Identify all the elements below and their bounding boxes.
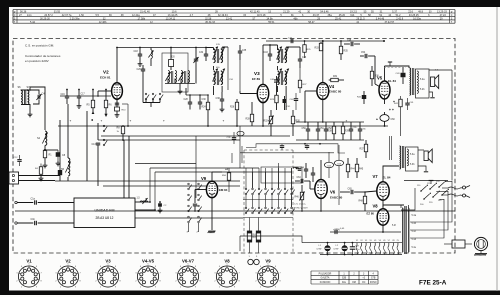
svg-text:C48: C48	[347, 40, 352, 42]
svg-text:46b: 46b	[293, 18, 298, 21]
diode det blob	[58, 170, 62, 181]
svg-text:C60: C60	[391, 119, 396, 121]
svg-text:5.4d: 5.4d	[412, 239, 417, 241]
wire V7 grid	[365, 191, 377, 192]
svg-text:EZ 80: EZ 80	[367, 212, 375, 216]
svg-text:R46: R46	[295, 197, 300, 199]
svg-text:+A: +A	[225, 168, 228, 171]
resistor R35	[339, 40, 348, 60]
lamp socket diagram	[248, 256, 259, 265]
selector verticals	[0, 0, 1, 1]
wire osc grid	[186, 88, 208, 96]
tube V5	[379, 81, 390, 99]
terminal FM a	[15, 201, 34, 203]
note text conmutador	[25, 54, 61, 63]
resistor R52	[256, 222, 260, 253]
svg-text:EABC 80: EABC 80	[329, 90, 342, 94]
svg-text:2B A3 U8 12: 2B A3 U8 12	[96, 216, 114, 220]
wire bank top mesh	[232, 146, 242, 163]
svg-text:C13: C13	[92, 144, 97, 146]
svg-text:12,46b: 12,46b	[99, 21, 107, 24]
wire B+ rail2	[266, 38, 385, 44]
wire V4 grid	[304, 91, 317, 123]
capacitor C59	[305, 144, 309, 150]
resistor R39	[341, 122, 349, 140]
wire spk1 gnd	[429, 92, 435, 98]
resistor R44	[346, 158, 355, 178]
svg-text:EM 84: EM 84	[219, 188, 228, 192]
scan edge right	[496, 7, 498, 291]
svg-text:EABC 80: EABC 80	[330, 195, 343, 199]
IF can 4	[277, 69, 289, 86]
svg-text:2,42,9: 2,42,9	[396, 18, 404, 21]
wire IF2 wiring	[214, 60, 241, 95]
parts table text	[14, 11, 453, 24]
motor M	[474, 237, 487, 253]
svg-text:V8: V8	[224, 259, 230, 264]
svg-text:13,41: 13,41	[226, 18, 233, 21]
power core	[405, 206, 406, 254]
socket diagram V6-V7	[175, 259, 201, 289]
switch S1a contacts	[103, 125, 107, 146]
oval label R28b	[237, 131, 244, 135]
trimmer C24	[193, 47, 198, 84]
svg-text:S7B: S7B	[371, 278, 376, 280]
bus y140	[98, 139, 240, 141]
pickup text	[294, 204, 308, 210]
svg-text:V4: V4	[329, 84, 335, 89]
capacitor C54	[360, 52, 375, 58]
svg-text:V3: V3	[365, 240, 367, 242]
output secondary box2	[406, 147, 419, 171]
heater bus top	[302, 242, 402, 244]
resistor R5	[87, 89, 95, 121]
resistor R4	[35, 164, 43, 181]
FM unit label	[95, 209, 115, 221]
output secondary box	[416, 69, 430, 98]
selector nest wires	[410, 181, 452, 238]
capacitor C41 blob	[283, 96, 292, 110]
svg-text:+: +	[392, 108, 394, 112]
svg-text:45,34,33: 45,34,33	[205, 21, 215, 24]
osc coil S7b	[165, 71, 170, 83]
voltage selector switches	[420, 181, 449, 200]
svg-text:R31: R31	[333, 76, 338, 78]
capacitor C18	[134, 47, 143, 67]
FM link coil	[137, 198, 148, 205]
terminal FM b	[15, 222, 34, 224]
svg-text:25,41: 25,41	[335, 18, 342, 21]
svg-text:C18: C18	[134, 51, 139, 53]
capacitor C38	[216, 92, 225, 112]
svg-text:FAL: FAL	[342, 281, 347, 284]
tube V4 label	[329, 84, 342, 94]
resistor R42 blob	[357, 91, 366, 104]
svg-text:5,5: 5,5	[95, 14, 99, 17]
trimmer C4	[36, 93, 45, 101]
wire terminal b	[19, 180, 56, 182]
svg-text:S2B: S2B	[342, 278, 347, 280]
IF can 2	[213, 69, 225, 86]
wire V9 top	[212, 172, 222, 181]
tube V8 label	[367, 204, 379, 216]
wire S4 tap	[44, 149, 58, 151]
tube V2 label	[100, 70, 111, 80]
svg-text:+: +	[130, 119, 132, 123]
svg-text:R28: R28	[246, 119, 251, 121]
svg-text:2,20,39a: 2,20,39a	[70, 18, 80, 21]
svg-text:C50: C50	[302, 128, 307, 130]
svg-text:OC: OC	[362, 282, 366, 284]
resistor R28	[246, 102, 254, 126]
capacitor C55	[349, 122, 357, 140]
wire v60	[59, 120, 61, 170]
label S15	[216, 44, 221, 46]
wire V6 cath	[320, 199, 322, 212]
svg-text:5,44: 5,44	[30, 21, 35, 24]
tube V3	[257, 84, 268, 102]
svg-text:5.2b: 5.2b	[420, 89, 425, 91]
pushbutton unit dashed boundary	[244, 150, 293, 253]
svg-text:V1: V1	[356, 240, 358, 242]
coupling C65	[340, 189, 365, 195]
pot R46	[295, 185, 305, 212]
svg-text:V4: V4	[374, 240, 376, 242]
tube V5 label	[377, 76, 396, 84]
svg-text:EF 89: EF 89	[252, 77, 260, 81]
svg-text:5.3a: 5.3a	[410, 154, 415, 156]
wire osc bottoms	[165, 79, 195, 94]
capacitor C1b	[31, 218, 75, 225]
wire V8 plate	[383, 205, 404, 209]
output core 2	[402, 146, 404, 168]
tube V8	[377, 209, 389, 225]
plus marks avc	[70, 119, 348, 123]
wire V6 plate	[320, 160, 322, 179]
wire V9 cath	[208, 198, 216, 233]
capacitor C66	[335, 228, 345, 234]
shield line det	[240, 143, 345, 153]
function table grid	[311, 271, 378, 284]
capacitor C26	[137, 65, 146, 76]
svg-text:R24: R24	[202, 107, 207, 109]
svg-text:14,1: 14,1	[27, 14, 32, 17]
chassis dashed boundary	[13, 39, 455, 254]
svg-text:V7: V7	[388, 240, 390, 242]
svg-text:V5: V5	[369, 240, 371, 242]
svg-text:21,29: 21,29	[283, 11, 290, 14]
svg-text:V6: V6	[383, 240, 385, 242]
svg-text:V7: V7	[373, 174, 379, 179]
tube V4	[317, 83, 329, 100]
svg-text:V2: V2	[103, 70, 109, 75]
wire spk1 top	[429, 70, 452, 181]
output transformer S3 primary	[400, 146, 401, 169]
IF can 3	[277, 47, 289, 64]
wire heater feed	[240, 236, 302, 251]
svg-text:V8: V8	[373, 204, 379, 209]
wire V7 cath	[382, 200, 384, 207]
svg-text:C64: C64	[297, 177, 302, 179]
svg-text:R48: R48	[359, 201, 364, 203]
svg-text:V2: V2	[360, 240, 362, 242]
svg-text:0,9W: 0,9W	[334, 249, 339, 251]
wire phono drop	[0, 0, 1, 1]
wire C60	[384, 112, 386, 127]
wire grid top	[60, 95, 111, 97]
tube V7	[377, 182, 389, 200]
socket diagram V2	[55, 259, 81, 289]
bus 250V	[330, 228, 401, 232]
osc shield box	[162, 53, 188, 92]
wire det buses2	[332, 122, 364, 140]
label 5W	[435, 70, 439, 72]
heater junctions	[327, 242, 354, 256]
svg-text:C17: C17	[81, 94, 86, 96]
resistor R38b	[328, 122, 336, 140]
wire terminal a	[19, 175, 61, 177]
wire v339	[338, 145, 340, 205]
capacitor C28	[184, 95, 193, 110]
bus y163	[135, 126, 240, 198]
electrolytic C60	[376, 115, 395, 122]
aerial coil S6	[18, 86, 23, 105]
oval label C62	[324, 162, 333, 167]
svg-text:+: +	[163, 119, 165, 123]
wire V3 grid	[240, 91, 257, 94]
svg-text:UNIDAD FM: UNIDAD FM	[95, 209, 115, 213]
svg-text:40,5,18: 40,5,18	[257, 14, 266, 17]
capacitor C51	[316, 122, 325, 140]
resistor R8	[117, 126, 125, 134]
svg-text:2ª: 2ª	[197, 231, 199, 234]
svg-text:R26: R26	[230, 107, 235, 109]
pushbutton row wires	[243, 200, 293, 223]
wire V2 plate	[116, 47, 118, 83]
svg-text:V4-V5: V4-V5	[142, 259, 155, 264]
svg-text:5.2a: 5.2a	[420, 79, 425, 81]
osc core 1	[172, 71, 173, 83]
resistor R29	[270, 87, 278, 110]
phono connector box	[452, 240, 465, 248]
wire osc sw	[143, 76, 160, 107]
parts table grid	[13, 10, 455, 24]
phono hatch ground	[474, 254, 487, 256]
lamp L2	[334, 245, 348, 251]
wire V7 plate	[383, 166, 399, 182]
tube V2	[112, 83, 123, 99]
speaker 2	[424, 149, 432, 163]
tube V6 label	[330, 190, 343, 200]
svg-text:+: +	[376, 118, 378, 122]
capacitor C35	[238, 45, 247, 60]
switch osc contacts	[145, 93, 163, 100]
wire trafo2	[0, 0, 1, 1]
wire det buses	[296, 122, 332, 140]
wire trafo top	[401, 205, 409, 208]
resistor R30	[291, 110, 300, 136]
tube V7 label	[373, 174, 391, 180]
bus B+ top	[117, 47, 214, 49]
wire R1 ground	[43, 158, 48, 168]
socket diagram V1	[16, 259, 42, 289]
mains plug	[448, 186, 470, 198]
wire v98	[97, 123, 99, 140]
capacitor C32	[199, 47, 208, 61]
svg-text:5.4f: 5.4f	[392, 225, 396, 227]
capacitor C16	[61, 89, 70, 104]
svg-text:R32: R32	[264, 121, 269, 123]
bus y172	[155, 171, 292, 173]
svg-text:+: +	[101, 119, 103, 123]
tone shield box	[261, 167, 302, 183]
svg-text:1,50: 1,50	[79, 14, 84, 17]
svg-text:FONO y 220V: FONO y 220V	[294, 208, 308, 210]
pushbutton verticals	[253, 163, 292, 207]
capacitor C17	[77, 89, 86, 109]
oval label C63	[334, 160, 343, 165]
mains earth mark	[404, 181, 448, 185]
wire v87	[86, 111, 88, 181]
plus marks cath	[389, 100, 395, 112]
svg-text:5.4b: 5.4b	[412, 223, 417, 225]
wire V4 cath	[322, 99, 324, 122]
function table text	[319, 272, 377, 284]
svg-text:C65: C65	[348, 189, 353, 191]
resistor R37	[360, 140, 368, 158]
svg-text:30,29,30: 30,29,30	[40, 18, 50, 21]
svg-text:C16: C16	[61, 94, 66, 96]
border frame left	[0, 0, 9, 295]
output transformer S2 primary	[410, 68, 411, 95]
bus y168	[150, 167, 259, 169]
svg-text:R35: R35	[344, 51, 349, 53]
capacitor C44	[290, 93, 299, 110]
svg-text:17,58b: 17,58b	[137, 18, 145, 21]
svg-text:EL 84: EL 84	[388, 79, 396, 83]
resistor R48	[359, 191, 367, 211]
capacitor C50	[302, 122, 311, 140]
svg-text:FUNCION: FUNCION	[320, 282, 331, 284]
wire V8 cath	[382, 225, 384, 233]
wire V4 plate	[322, 42, 324, 83]
svg-text:R33: R33	[315, 48, 320, 50]
svg-text:38a: 38a	[328, 14, 333, 17]
resistor R6	[104, 89, 112, 117]
selector frame	[401, 188, 415, 210]
svg-text:R44: R44	[351, 169, 356, 171]
wire trimmer	[27, 89, 39, 104]
output core 1	[412, 68, 414, 95]
socket diagram V9	[255, 259, 281, 289]
wire trafo1 top	[408, 66, 409, 68]
svg-text:FONO: FONO	[370, 282, 377, 284]
capacitor C48	[344, 40, 360, 46]
pushbutton left columns	[188, 183, 202, 223]
wire mains line	[0, 0, 1, 1]
label R51 R52	[252, 234, 257, 239]
capacitor C2 blob	[158, 202, 167, 213]
border frame top	[0, 0, 500, 7]
svg-text:R39: R39	[345, 131, 350, 133]
svg-text:C.S. en pos.: C.S. en pos.	[294, 204, 306, 206]
svg-text:V8: V8	[392, 240, 394, 242]
svg-text:3ª: 3ª	[187, 231, 189, 234]
svg-text:V6-V7: V6-V7	[182, 259, 195, 264]
IF can 1	[213, 47, 225, 64]
svg-text:en posición 220V: en posición 220V	[25, 59, 50, 63]
svg-text:C1a: C1a	[31, 198, 36, 201]
wire v68	[67, 104, 69, 181]
osc coil S9	[178, 71, 183, 83]
label EM84	[219, 188, 228, 192]
capacitor C67	[350, 246, 360, 251]
svg-text:+: +	[223, 119, 225, 123]
svg-text:V2: V2	[65, 259, 71, 264]
svg-text:OM: OM	[352, 282, 356, 284]
socket diagram V4-V5	[135, 259, 161, 289]
wire V3 plate	[263, 45, 278, 84]
lamp leads	[328, 243, 353, 255]
terminal box PU	[9, 172, 19, 184]
B terminal mark	[388, 62, 392, 67]
svg-text:5.4e: 5.4e	[412, 247, 417, 249]
capacitor C64	[295, 177, 310, 183]
resistor R27	[298, 80, 307, 88]
svg-text:C38: C38	[216, 98, 221, 100]
resistor R26	[230, 99, 239, 127]
capacitor C52	[324, 122, 333, 140]
svg-text:PL: PL	[397, 240, 399, 242]
svg-text:EL 84: EL 84	[383, 176, 391, 180]
svg-text:C30: C30	[202, 99, 207, 101]
coil S5 tunable	[61, 158, 71, 176]
power transformer primary	[402, 208, 403, 252]
svg-text:31,41,40: 31,41,40	[140, 11, 150, 14]
FM unit box	[74, 198, 135, 228]
svg-text:33,55: 33,55	[54, 11, 61, 14]
capacitor C12	[14, 155, 22, 166]
speaker 1	[431, 75, 439, 89]
capacitor C8 block	[56, 150, 66, 166]
resistor R50	[222, 168, 231, 192]
svg-text:125u: 125u	[355, 249, 359, 251]
osc coil S8	[175, 71, 177, 83]
capacitor C36	[227, 132, 237, 144]
capacitor C46	[298, 52, 307, 68]
capacitor C13	[92, 143, 101, 186]
wire v124	[123, 140, 125, 198]
capacitor C1a	[31, 198, 75, 205]
svg-text:V3: V3	[105, 259, 111, 264]
wire aerial loop	[21, 90, 30, 112]
svg-text:4,7: 4,7	[190, 14, 194, 17]
plus marks2	[392, 108, 394, 112]
wire phono link	[444, 243, 472, 245]
svg-text:GALETA: GALETA	[321, 277, 330, 280]
svg-text:C54: C54	[361, 52, 366, 54]
pushbutton left verticals	[187, 223, 199, 234]
wire V3 cath	[262, 103, 264, 127]
volume pot R32	[264, 110, 274, 136]
svg-text:C1b: C1b	[31, 218, 36, 221]
capacitor C61	[405, 98, 414, 110]
svg-text:0,9W: 0,9W	[317, 249, 322, 251]
tube V3 label	[252, 71, 260, 81]
voltage selector labels	[417, 181, 442, 206]
wire V5 grid	[375, 56, 380, 87]
resistor R36	[370, 66, 379, 86]
